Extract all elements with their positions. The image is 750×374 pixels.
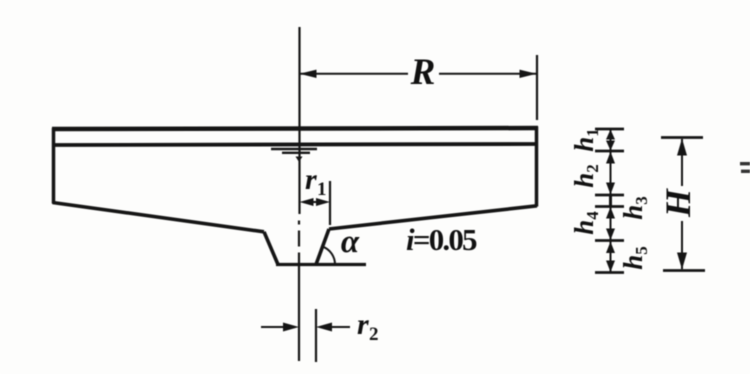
tank second top line (bridge bottom) [52, 144, 538, 145]
h-chain tick y=206.5 [595, 205, 624, 208]
h3 segment connector [609, 196, 612, 206]
label h2 [569, 164, 602, 188]
tank bottom left slope [53, 203, 265, 232]
h-chain tick y=271 [595, 271, 624, 274]
svg-text:i=0.05: i=0.05 [406, 222, 477, 257]
label h1 [569, 128, 602, 152]
svg-text:α: α [341, 224, 360, 260]
H-chain top arrow [677, 139, 687, 156]
svg-text:H: H [658, 188, 698, 218]
h-chain tick y=240.5 [595, 239, 624, 242]
svg-text:r: r [305, 163, 317, 196]
svg-text:R: R [410, 52, 436, 93]
h2 segment arrows [606, 152, 615, 195]
h4 segment arrows [606, 207, 615, 240]
extension line for R at right [536, 55, 538, 120]
label h4 [569, 211, 602, 235]
tank top line (bridge top) [52, 128, 538, 129]
H-chain bottom arrow [677, 253, 687, 270]
h-chain tick y=129 [595, 128, 624, 131]
centerline (vertical dash-dot axis) [298, 27, 301, 361]
dimension R line with arrows [299, 70, 537, 78]
h5 segment arrows [606, 242, 615, 273]
label h3 [618, 196, 651, 220]
extension line for r1 [329, 181, 331, 225]
svg-text:2: 2 [369, 324, 379, 345]
tank left wall [52, 128, 56, 204]
tank right wall [535, 127, 539, 207]
H-chain top tick [661, 136, 703, 139]
angle arc for alpha [323, 247, 336, 265]
h-chain line [610, 129, 612, 273]
label H [658, 188, 698, 218]
dimension r2 left arrow [261, 323, 299, 332]
equals mark at right edge [740, 162, 750, 173]
tank bottom right slope [329, 206, 537, 229]
hopper bottom and angle reference line [276, 263, 366, 266]
h-chain tick y=151 [595, 150, 624, 153]
dimension r1 arrows [300, 198, 331, 206]
svg-text:1: 1 [317, 179, 327, 200]
h-chain tick y=195 [595, 194, 624, 197]
water surface symbol [271, 149, 317, 162]
extension line right of r2 (hopper bottom edge) [315, 309, 317, 362]
label h5 [618, 246, 651, 270]
svg-text:r: r [357, 308, 369, 341]
H-chain bottom tick [663, 269, 705, 272]
dimension r2 right arrow [316, 323, 350, 332]
hopper left wall [264, 232, 278, 265]
H-chain dimension line [681, 139, 683, 269]
h1 segment arrows [606, 130, 615, 151]
hopper right wall [316, 229, 329, 265]
